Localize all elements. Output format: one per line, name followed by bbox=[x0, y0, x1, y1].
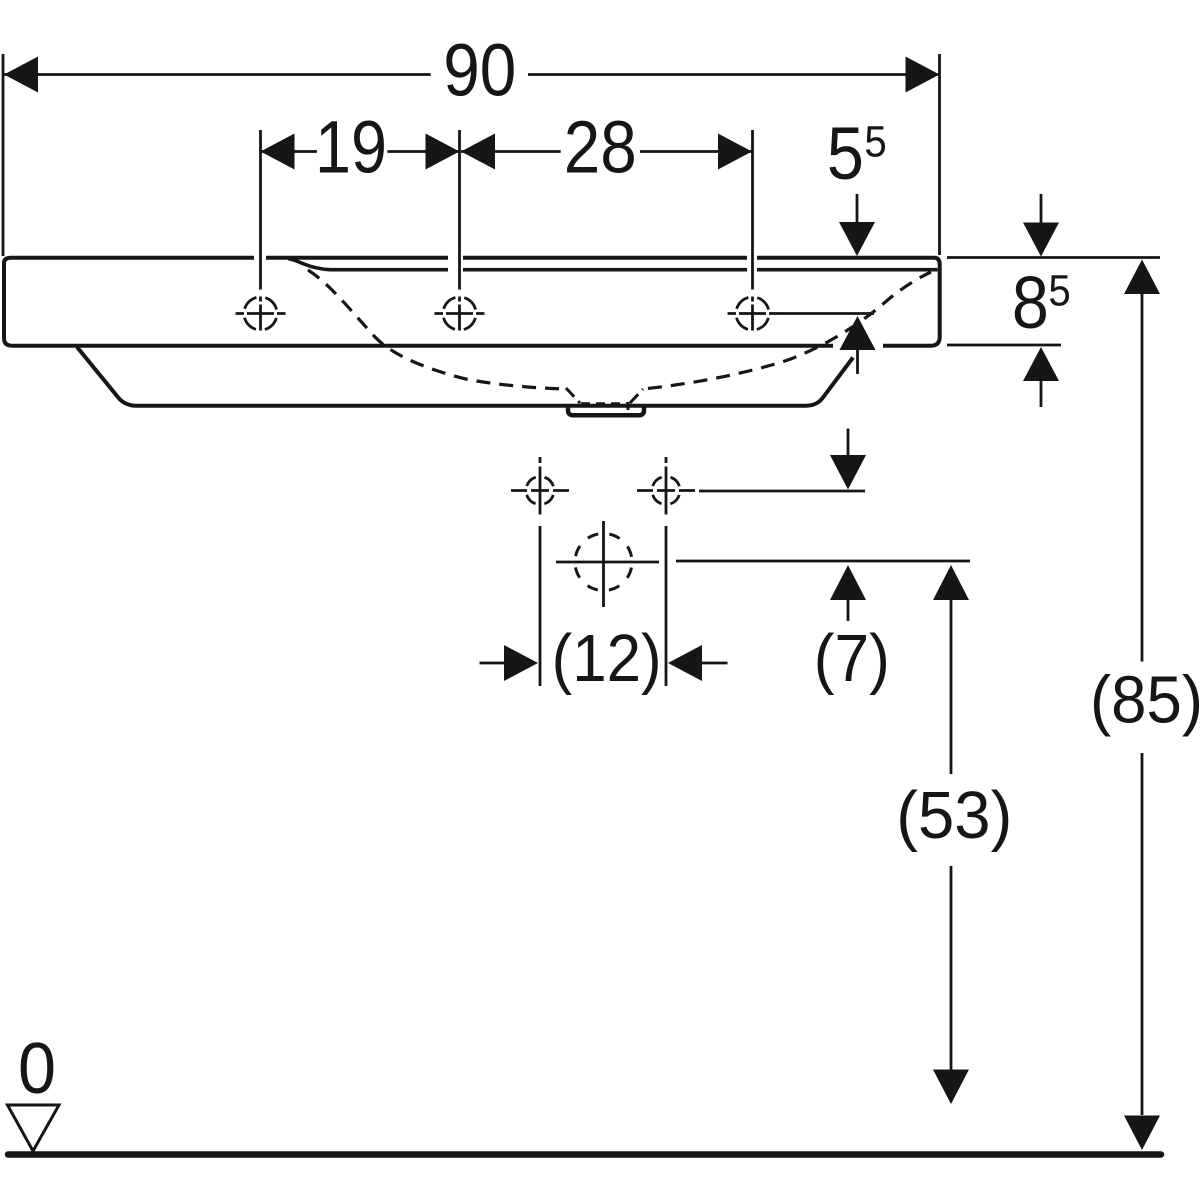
dimension 28 line bbox=[461, 150, 752, 153]
white masks under (53) and (85) texts bbox=[893, 774, 1015, 866]
svg-text:19: 19 bbox=[315, 106, 387, 189]
dimension (85) line bbox=[1141, 294, 1144, 1115]
dimension (53) arrow bottom bbox=[933, 1070, 969, 1105]
dimension 8.5 arrow up bbox=[1023, 347, 1059, 381]
dimension 90 extension line left bbox=[2, 54, 5, 256]
svg-text:28: 28 bbox=[564, 106, 637, 189]
faucet hole 3 bbox=[728, 297, 778, 331]
dimension 90 arrow right bbox=[906, 57, 940, 93]
siphon circle bbox=[556, 521, 659, 607]
siphon leader line bbox=[676, 560, 970, 563]
dimension 5.5 arrow up onto hole leader bbox=[840, 316, 876, 350]
dimension 90 extension line right bbox=[938, 54, 941, 255]
dimension 8.5 extension line top bbox=[947, 256, 1160, 259]
washbasin outline bbox=[4, 258, 940, 406]
dimension 8.5 extension line bottom bbox=[947, 344, 1061, 347]
svg-text:(85): (85) bbox=[1090, 663, 1200, 738]
dimension (7) arrow up bbox=[830, 565, 866, 600]
dimension (12) arrow right pointing left bbox=[702, 662, 728, 665]
svg-text:8: 8 bbox=[1012, 261, 1049, 344]
faucet hole 2 bbox=[435, 297, 485, 331]
rim left edge and bottom edge bbox=[4, 258, 833, 346]
mounting hole left bbox=[511, 457, 569, 515]
svg-text:5: 5 bbox=[827, 112, 864, 195]
dimension 19/28 extension line middle (hole 2 centerline) bbox=[458, 130, 461, 290]
dimension 19 line bbox=[261, 150, 460, 153]
basin underside bbox=[77, 347, 853, 406]
drain funnel hidden lines bbox=[566, 388, 643, 411]
dimension (7) arrow down bbox=[847, 429, 850, 457]
dimension 28 arrow left bbox=[461, 134, 495, 170]
mounting holes leader line bbox=[699, 490, 865, 493]
dimension (12) extension line right bbox=[665, 526, 668, 686]
hidden bowl contour (dashed) bbox=[308, 270, 931, 389]
rim top line segments bbox=[266, 256, 934, 260]
svg-text:90: 90 bbox=[443, 29, 516, 112]
dimension 5.5 arrow down onto rim top bbox=[856, 194, 859, 223]
svg-text:(12): (12) bbox=[552, 621, 662, 696]
dimension 90 arrow left bbox=[4, 57, 38, 93]
dimension 19 arrow left bbox=[261, 134, 295, 170]
floor line bbox=[8, 1151, 1161, 1158]
dimension 28 extension line right (hole 3 centerline) bbox=[751, 130, 754, 290]
svg-text:0: 0 bbox=[18, 1029, 56, 1109]
mounting hole right bbox=[637, 457, 695, 515]
dimension (85) arrow bottom bbox=[1124, 1116, 1160, 1151]
hole 3 leader line bbox=[777, 312, 874, 315]
svg-text:(53): (53) bbox=[896, 778, 1012, 853]
dimension (53) arrow top bbox=[933, 565, 969, 600]
rim right edge and inner top line bbox=[883, 258, 940, 346]
dimension (12) arrow left pointing right bbox=[480, 662, 506, 665]
dimension (85) arrow top bbox=[1124, 260, 1160, 295]
dimension (53) line bbox=[950, 600, 953, 1070]
dimension 8.5 arrow down bbox=[1040, 194, 1043, 223]
dimension 19 extension line left (hole 1 centerline) bbox=[259, 130, 262, 290]
drain flange bbox=[568, 407, 644, 416]
dimension (12) extension line left bbox=[539, 526, 542, 686]
dimension 28 arrow right bbox=[718, 134, 752, 170]
faucet hole 1 bbox=[236, 297, 286, 331]
dimension 19 arrow right bbox=[426, 134, 460, 170]
svg-text:(7): (7) bbox=[814, 621, 890, 696]
datum triangle bbox=[8, 1105, 60, 1151]
dimension 90 line bbox=[4, 73, 940, 76]
